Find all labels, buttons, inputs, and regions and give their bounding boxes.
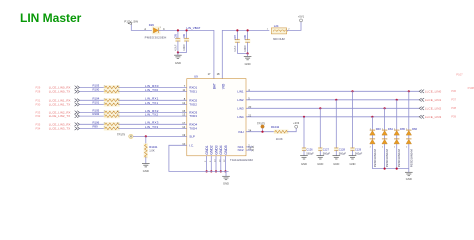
svg-text:GND: GND: [223, 182, 229, 186]
svg-text:GND: GND: [245, 62, 251, 66]
svg-text:GND: GND: [301, 162, 307, 166]
svg-text:P108: P108: [468, 86, 474, 90]
svg-text:LIN3: LIN3: [237, 106, 244, 110]
capacitor C128 560pF: [334, 100, 347, 156]
svg-text:PESD1VN0-M: PESD1VN0-M: [373, 149, 377, 168]
svg-text:P29: P29: [36, 85, 41, 89]
op-amp U9 TJA1124HG quad LIN transceiver body: [187, 75, 254, 162]
svg-text:1: 1: [104, 110, 105, 112]
svg-text:C127: C127: [323, 147, 330, 151]
port LLCE_LIN1: [419, 98, 456, 102]
wire R1042 to +3V3: [287, 128, 296, 131]
svg-text:2: 2: [117, 90, 118, 92]
svg-text:1: 1: [104, 85, 105, 87]
port P30 LLCE_LIN1_TX: [36, 102, 80, 106]
svg-text:GND: GND: [175, 61, 181, 65]
svg-text:2: 2: [406, 147, 407, 149]
wire cap pair 2 to ground: [237, 52, 248, 54]
svg-text:R101: R101: [93, 101, 100, 105]
ground below U9: [222, 171, 230, 185]
svg-text:4.7uF: 4.7uF: [234, 45, 237, 52]
resistor R99: [93, 125, 120, 131]
svg-text:LIN2: LIN2: [237, 98, 244, 102]
svg-text:1: 1: [160, 27, 161, 29]
svg-text:C95: C95: [174, 33, 177, 38]
wire LIN_RX3 to U9: [119, 121, 187, 125]
svg-text:GND3: GND3: [214, 145, 218, 154]
resistor R101: [93, 101, 120, 107]
pin 21 LIN4: [237, 113, 251, 119]
svg-text:C96: C96: [183, 33, 186, 38]
pin 14 TXD4: [182, 125, 197, 131]
svg-text:600 OHM: 600 OHM: [273, 37, 285, 41]
svg-text:2: 2: [370, 147, 371, 149]
port P35 LLCE_LIN3_RX: [36, 122, 80, 126]
wire LIN row LLCE_LIN2: [246, 107, 419, 109]
pin GND2: [210, 145, 214, 172]
port P31 LLCE_LIN1_RX: [36, 98, 80, 102]
pin 20 LIN3: [237, 105, 251, 111]
pin 4 LIN1: [237, 88, 250, 94]
pin 2 NC1: [238, 144, 251, 150]
svg-text:R102: R102: [93, 112, 100, 116]
wire LIN_RX0 to U9: [119, 84, 187, 88]
wire D66 to ground rail: [408, 144, 410, 169]
wire LIN_TX3 to U9: [119, 125, 187, 129]
ground below C128: [333, 156, 341, 167]
wire LIN row LLCE_LIN3: [246, 116, 419, 118]
ground below C95/C96: [174, 53, 182, 65]
wire I.C. pin to ground rail: [169, 145, 229, 171]
TVS diode D65 PESD1LIN: [394, 100, 405, 167]
svg-text:18: 18: [217, 72, 220, 76]
TVS diode D66 PESD1LIN: [406, 91, 417, 167]
svg-text:2: 2: [117, 114, 118, 116]
wire junction to R1041: [145, 136, 147, 144]
test point TP179: [117, 133, 133, 139]
wire D65 to ground rail: [396, 144, 398, 169]
power symbol +3V3: [293, 121, 300, 128]
no-connect NC pin 2: [246, 146, 254, 148]
capacitor C97: [234, 29, 240, 53]
svg-text:LLCE_LIN0_TX: LLCE_LIN0_TX: [49, 90, 70, 94]
TVS diode D63 PESD1LIN: [370, 117, 381, 167]
wire LLCE_LIN2_RX to resistor: [79, 111, 105, 113]
pin 18 VIO: [217, 72, 226, 89]
svg-text:2: 2: [382, 147, 383, 149]
wire D64 to ground rail: [384, 144, 386, 169]
svg-text:INH: INH: [238, 130, 243, 134]
svg-text:1.0K: 1.0K: [149, 149, 155, 153]
ground below TVS diodes: [405, 169, 413, 182]
svg-text:L24: L24: [274, 24, 279, 28]
svg-text:GND4: GND4: [219, 145, 223, 154]
wire P12V_SW to diode anode: [131, 25, 153, 31]
wire LIN_TX2 to U9: [119, 113, 187, 117]
resistor R102: [93, 112, 120, 118]
resistor R106: [93, 120, 120, 126]
wire LIN_RX1 to U9: [119, 97, 187, 101]
ground below C129: [349, 156, 357, 167]
svg-text:R1041: R1041: [149, 145, 158, 149]
svg-text:LIN_TX0: LIN_TX0: [145, 88, 158, 92]
svg-text:1: 1: [104, 122, 105, 124]
svg-text:D29: D29: [149, 23, 155, 27]
svg-text:P36: P36: [451, 89, 456, 93]
svg-text:VIO: VIO: [221, 83, 225, 89]
svg-text:I.C.: I.C.: [189, 143, 194, 147]
svg-text:GND: GND: [143, 169, 149, 173]
wire LLCE_LIN1_TX to resistor: [79, 103, 105, 105]
svg-text:560pF: 560pF: [355, 151, 363, 155]
wire LIN_TX1 to U9: [119, 101, 187, 105]
svg-text:2: 2: [117, 85, 118, 87]
node SLP pulldown junction: [145, 135, 147, 137]
svg-text:TXD3: TXD3: [189, 114, 197, 118]
port P32 LLCE_LIN2_TX: [36, 114, 80, 118]
wire D63 to ground rail: [371, 144, 373, 169]
resistor R100: [93, 88, 120, 94]
svg-text:SLP: SLP: [189, 135, 195, 139]
svg-text:TJA1124AHG/0Z2: TJA1124AHG/0Z2: [230, 158, 253, 162]
svg-text:2: 2: [117, 102, 118, 104]
port LLCE_LIN0: [419, 89, 456, 93]
wire LIN row LLCE_LIN0: [246, 90, 419, 92]
svg-text:TXD1: TXD1: [189, 90, 197, 94]
svg-text:TP179: TP179: [117, 133, 125, 137]
svg-text:1: 1: [104, 102, 105, 104]
svg-text:2: 2: [117, 110, 118, 112]
svg-text:P31: P31: [36, 98, 41, 102]
svg-text:LLCE_LIN2_TX: LLCE_LIN2_TX: [49, 114, 70, 118]
pin 10 I.C.: [182, 142, 194, 148]
capacitor C98: [244, 29, 250, 53]
resistor R1041 1.0K: [144, 143, 158, 158]
svg-text:LLCE_LIN1_TX: LLCE_LIN1_TX: [49, 102, 70, 106]
pin 17 BAT: [208, 72, 217, 89]
svg-text:D65: D65: [400, 127, 405, 131]
pin 7 RXD1: [184, 84, 198, 90]
svg-text:P28: P28: [36, 90, 41, 94]
svg-text:P35: P35: [36, 122, 41, 126]
pin 12 TXD2: [182, 101, 197, 107]
pin 17 RXD4: [182, 121, 197, 127]
svg-text:2: 2: [117, 98, 118, 100]
no-connect NC pin 23: [246, 149, 254, 151]
svg-text:17: 17: [208, 72, 211, 76]
wire LLCE_LIN0_TX to resistor: [79, 91, 105, 93]
wire LIN_TX0 to U9: [119, 88, 187, 92]
wire INH to R1042: [246, 131, 275, 133]
svg-text:1: 1: [370, 128, 371, 130]
capacitor C129 560pF: [350, 91, 363, 155]
svg-text:2: 2: [394, 147, 395, 149]
svg-text:LIN_TX1: LIN_TX1: [145, 101, 158, 105]
svg-text:4.7uF: 4.7uF: [174, 44, 177, 51]
ferrite bead L24 600 OHM: [267, 24, 291, 41]
ground below C97/C98: [244, 54, 252, 67]
svg-text:+3V3: +3V3: [293, 121, 300, 125]
test point TP175: [257, 122, 265, 133]
svg-text:560pF: 560pF: [339, 151, 347, 155]
port LLCE_LIN3: [419, 115, 456, 119]
svg-text:560pF: 560pF: [306, 151, 314, 155]
svg-text:R100: R100: [93, 88, 100, 92]
power symbol +5V1: [298, 15, 305, 22]
wire VIO rail to ferrite: [222, 30, 269, 78]
svg-text:1: 1: [104, 90, 105, 92]
svg-text:10.0K: 10.0K: [276, 137, 283, 141]
wire LLCE_LIN3_RX to resistor: [79, 123, 105, 125]
svg-text:PESD1VN0-M: PESD1VN0-M: [409, 149, 413, 168]
svg-text:C98: C98: [244, 35, 247, 40]
svg-text:P39: P39: [451, 115, 456, 119]
svg-text:+5V1: +5V1: [298, 15, 305, 19]
svg-text:D63: D63: [376, 127, 381, 131]
svg-text:C128: C128: [339, 147, 346, 151]
svg-text:P38: P38: [451, 106, 456, 110]
svg-text:100nF: 100nF: [244, 44, 247, 51]
wire LIN row LLCE_LIN1: [246, 99, 419, 101]
pin 15 RXD3: [182, 109, 197, 115]
svg-text:1: 1: [406, 128, 407, 130]
svg-text:1: 1: [104, 98, 105, 100]
svg-text:LLCE_LIN3: LLCE_LIN3: [425, 115, 442, 119]
svg-text:TP175: TP175: [257, 122, 265, 126]
svg-text:LLCE_LIN2: LLCE_LIN2: [425, 106, 442, 110]
svg-text:NC2: NC2: [238, 148, 244, 152]
ground below C126: [300, 156, 308, 167]
ground below R1041: [142, 164, 150, 173]
port P33 LLCE_LIN2_RX: [36, 110, 80, 114]
resistor R104: [93, 96, 120, 102]
svg-text:TXD2: TXD2: [189, 103, 197, 107]
svg-text:GND1: GND1: [205, 145, 209, 154]
ground below C127: [317, 156, 325, 167]
TVS diode D64 PESD1LIN: [382, 108, 393, 167]
svg-text:PMEG3020EH: PMEG3020EH: [145, 36, 167, 40]
svg-text:GND: GND: [406, 177, 412, 181]
resistor R105: [93, 109, 120, 115]
svg-text:P30: P30: [36, 102, 41, 106]
pin 8 RXD2: [184, 97, 198, 103]
svg-text:C129: C129: [355, 147, 362, 151]
pin 19 SLP: [182, 133, 195, 139]
resistor R103: [93, 84, 120, 90]
diode D29 PMEG3020EH: [144, 23, 166, 39]
svg-text:GND2: GND2: [210, 145, 214, 154]
svg-text:GND: GND: [350, 162, 356, 166]
port P28 LLCE_LIN0_TX: [36, 90, 80, 94]
pin 5 LIN2: [237, 96, 250, 102]
wire LLCE_LIN2_TX to resistor: [79, 115, 105, 117]
svg-text:LLCE_LIN0: LLCE_LIN0: [425, 89, 442, 93]
svg-text:C97: C97: [234, 35, 237, 40]
wire TP179 to SLP: [133, 135, 187, 137]
wire LLCE_LIN3_TX to resistor: [79, 127, 105, 129]
svg-text:U9: U9: [194, 75, 198, 79]
capacitor C96: [183, 29, 189, 52]
svg-text:1: 1: [394, 128, 395, 130]
svg-text:2: 2: [117, 122, 118, 124]
svg-text:GND: GND: [333, 162, 339, 166]
wire ferrite to +5V1: [287, 22, 301, 31]
capacitor C127 560pF: [318, 108, 331, 155]
port P29 LLCE_LIN0_RX: [36, 85, 80, 89]
svg-text:PESD1VN0-M: PESD1VN0-M: [397, 149, 401, 168]
pin GND4: [219, 145, 223, 172]
svg-text:P33: P33: [36, 110, 41, 114]
svg-text:P34: P34: [36, 126, 41, 130]
svg-text:GND5: GND5: [224, 145, 228, 154]
svg-text:LIN4: LIN4: [237, 115, 244, 119]
wire LLCE_LIN0_RX to resistor: [79, 86, 105, 88]
svg-text:560pF: 560pF: [323, 151, 331, 155]
svg-text:P37: P37: [451, 98, 456, 102]
svg-text:LIN_TX3: LIN_TX3: [145, 125, 158, 129]
port P34 LLCE_LIN3_TX: [36, 126, 80, 130]
capacitor C95: [174, 29, 180, 52]
svg-text:100nF: 100nF: [183, 43, 186, 50]
svg-text:1: 1: [104, 126, 105, 128]
svg-text:1: 1: [104, 114, 105, 116]
svg-text:D64: D64: [388, 127, 393, 131]
svg-text:LLCE_LIN3_TX: LLCE_LIN3_TX: [49, 126, 70, 130]
svg-text:C126: C126: [306, 147, 313, 151]
svg-text:TXD4: TXD4: [189, 127, 197, 131]
svg-text:LIN_TX2: LIN_TX2: [145, 113, 158, 117]
capacitor C126 560pF: [302, 117, 315, 156]
svg-text:D66: D66: [412, 127, 417, 131]
svg-text:P32: P32: [36, 114, 41, 118]
pin 23 NC2: [238, 147, 252, 153]
pin 11 TXD1: [182, 88, 197, 94]
pin GND1: [205, 145, 209, 172]
pin GND3: [214, 145, 218, 172]
wire LLCE_LIN1_RX to resistor: [79, 99, 105, 101]
svg-text:LIN Master: LIN Master: [20, 11, 82, 25]
svg-text:LIN1: LIN1: [237, 89, 244, 93]
wire cap pair 1 to ground: [177, 51, 187, 53]
pin GND5: [224, 145, 228, 172]
svg-text:LLCE_LIN1: LLCE_LIN1: [425, 98, 442, 102]
svg-text:1: 1: [382, 128, 383, 130]
svg-text:R99: R99: [93, 125, 99, 129]
svg-text:2: 2: [117, 126, 118, 128]
svg-text:R1042: R1042: [271, 125, 280, 129]
wire TVS ground rail: [372, 168, 408, 170]
resistor R1042 10.0K: [271, 125, 288, 141]
wire LIN_VBAT rail: [159, 30, 214, 78]
port LLCE_LIN2: [419, 106, 456, 110]
power flag P12V_SW: [124, 19, 138, 25]
svg-text:LIN_VBAT: LIN_VBAT: [186, 26, 200, 30]
svg-text:P107: P107: [456, 72, 463, 76]
wire R1041 to ground: [145, 157, 147, 164]
svg-text:PESD1VN0-M: PESD1VN0-M: [385, 149, 389, 168]
svg-text:BAT: BAT: [213, 83, 217, 89]
wire LIN_RX2 to U9: [119, 109, 187, 113]
pin 24 INH: [238, 128, 251, 134]
pin 13 TXD3: [182, 113, 197, 119]
svg-text:GND: GND: [317, 162, 323, 166]
